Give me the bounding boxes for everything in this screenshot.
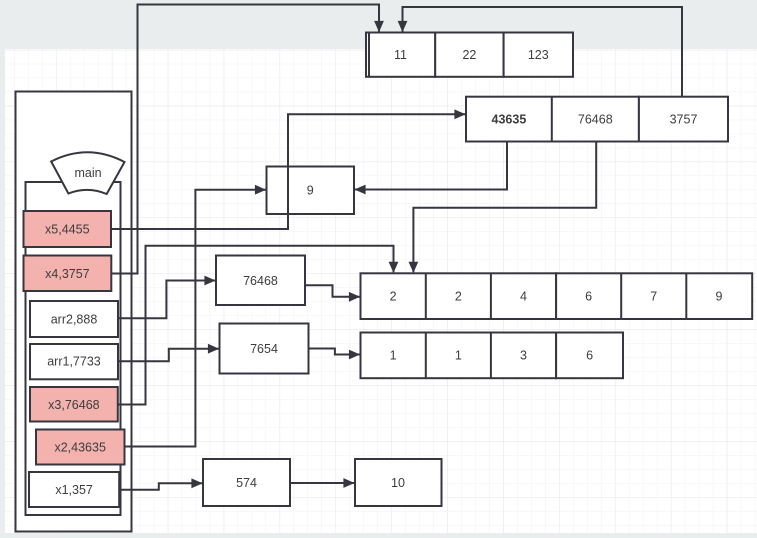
svg-text:7: 7 [650,290,657,304]
svg-text:x5,4455: x5,4455 [45,223,90,237]
svg-text:123: 123 [528,48,549,62]
svg-text:574: 574 [236,476,257,490]
svg-text:76468: 76468 [243,274,278,288]
svg-text:3: 3 [520,349,527,363]
svg-text:2: 2 [455,290,462,304]
svg-text:main: main [74,166,101,180]
svg-text:arr1,7733: arr1,7733 [47,355,101,369]
svg-text:4: 4 [520,290,527,304]
svg-text:3757: 3757 [670,113,698,127]
svg-text:1: 1 [455,349,462,363]
svg-text:10: 10 [391,476,405,490]
svg-text:22: 22 [462,48,476,62]
svg-text:6: 6 [586,349,593,363]
svg-text:x1,357: x1,357 [55,483,93,497]
svg-text:x2,43635: x2,43635 [54,441,105,455]
svg-text:6: 6 [585,290,592,304]
svg-text:76468: 76468 [578,113,613,127]
svg-text:arr2,888: arr2,888 [51,313,98,327]
svg-text:9: 9 [307,184,314,198]
svg-text:x4,3757: x4,3757 [45,267,90,281]
svg-text:7654: 7654 [250,342,278,356]
svg-text:43635: 43635 [492,113,527,127]
svg-text:1: 1 [390,349,397,363]
svg-text:x3,76468: x3,76468 [48,398,99,412]
svg-text:9: 9 [716,290,723,304]
svg-text:11: 11 [394,48,407,62]
svg-text:2: 2 [390,290,397,304]
